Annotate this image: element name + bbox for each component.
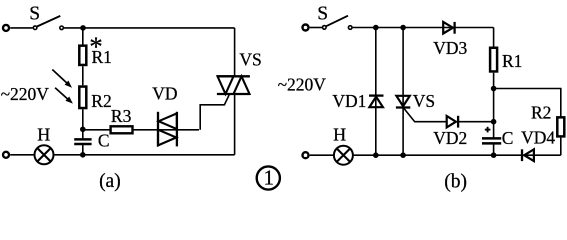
svg-text:R3: R3 bbox=[111, 106, 132, 126]
wire bbox=[560, 138, 562, 156]
terminal top-left (b) bbox=[303, 25, 309, 31]
capacitor C (b) polarized bbox=[482, 122, 501, 156]
wire bbox=[82, 28, 84, 46]
svg-text:S: S bbox=[29, 4, 40, 25]
wire bbox=[133, 129, 200, 131]
terminal top-left (a) bbox=[3, 25, 9, 31]
triac VS left triangle bbox=[218, 76, 234, 94]
wire R2 branch bbox=[494, 89, 561, 118]
wire bbox=[82, 109, 84, 130]
diac VD bottom triangle bbox=[158, 130, 176, 146]
wire bbox=[82, 66, 84, 85]
svg-text:H: H bbox=[37, 124, 50, 144]
svg-text:H: H bbox=[333, 124, 346, 144]
svg-text:R1: R1 bbox=[502, 51, 522, 71]
wire bbox=[493, 73, 495, 122]
node junction bottom VD1 bbox=[373, 152, 379, 158]
diode VD4 bbox=[522, 149, 534, 161]
switch S blade (b) bbox=[326, 16, 348, 27]
triac VS right triangle bbox=[234, 76, 250, 94]
wire VD1 branch bbox=[375, 28, 377, 155]
light arrow 1 bbox=[52, 70, 72, 88]
light arrow 2 bbox=[55, 88, 73, 104]
plus polarity mark bbox=[485, 127, 491, 133]
svg-text:S: S bbox=[317, 4, 328, 25]
svg-text:C: C bbox=[502, 128, 514, 148]
svg-text:(b): (b) bbox=[444, 172, 467, 193]
svg-text:~220V: ~220V bbox=[1, 84, 50, 104]
terminal bottom-left (b) bbox=[303, 152, 309, 158]
switch S pivot contact bbox=[33, 26, 37, 30]
node junction mid (a) bbox=[80, 127, 86, 133]
svg-text:R2: R2 bbox=[531, 102, 551, 122]
diode VD1 bbox=[369, 96, 384, 108]
svg-text:R1: R1 bbox=[92, 47, 112, 67]
lamp H (b) bbox=[334, 146, 353, 165]
wire top rail (b) bbox=[353, 27, 494, 29]
node junction top VD1 bbox=[373, 25, 379, 31]
resistor R3 bbox=[111, 126, 133, 133]
svg-text:VD3: VD3 bbox=[433, 38, 467, 58]
wire gate path bbox=[200, 94, 229, 130]
node junction bottom (a) bbox=[80, 152, 86, 158]
thyristor VS (b) bbox=[396, 96, 410, 108]
node junction R2 branch bbox=[491, 86, 497, 92]
svg-text:VS: VS bbox=[413, 91, 435, 111]
resistor R2 (photoresistor) bbox=[79, 87, 86, 109]
svg-text:VS: VS bbox=[239, 50, 261, 70]
switch S right contact bbox=[60, 26, 64, 30]
svg-text:VD2: VD2 bbox=[433, 128, 467, 148]
node junction top VS bbox=[400, 25, 406, 31]
wire right branch down bbox=[493, 28, 495, 48]
wire VS branch bbox=[402, 28, 404, 155]
wire triac bottom lead bbox=[234, 94, 236, 155]
wire gate of VS (b) bbox=[404, 108, 447, 122]
node junction top (a) bbox=[80, 25, 86, 31]
lamp H (a) bbox=[35, 145, 54, 164]
resistor R1 (b) bbox=[490, 48, 497, 72]
wire top rail (a) bbox=[64, 27, 235, 29]
resistor R1 bbox=[79, 46, 86, 65]
triac VS bottom bar bbox=[217, 93, 250, 95]
wire bottom rail (b) bbox=[310, 154, 494, 156]
switch S pivot contact (b) bbox=[323, 26, 327, 30]
wire triac top lead bbox=[234, 28, 236, 76]
svg-text:VD4: VD4 bbox=[521, 128, 555, 148]
wire bbox=[10, 27, 32, 29]
wire bottom-right segment bbox=[494, 154, 561, 156]
diac VD left bar bbox=[157, 112, 159, 147]
switch S right contact (b) bbox=[348, 26, 352, 30]
svg-text:C: C bbox=[98, 130, 110, 150]
svg-text:~220V: ~220V bbox=[278, 74, 327, 94]
resistor R2 (b) bbox=[557, 117, 564, 136]
wire bbox=[458, 121, 494, 123]
diac VD right bar bbox=[176, 112, 178, 147]
diac VD top triangle bbox=[159, 113, 177, 129]
node junction bottom VS bbox=[400, 152, 406, 158]
svg-text:R2: R2 bbox=[91, 91, 111, 111]
terminal bottom-left (a) bbox=[3, 152, 9, 158]
svg-text:VD1: VD1 bbox=[332, 91, 366, 111]
switch S blade bbox=[37, 16, 60, 27]
diode VD2 bbox=[447, 116, 458, 128]
wire bbox=[83, 129, 111, 131]
figure number circled 1 bbox=[257, 166, 280, 190]
node junction C top bbox=[491, 119, 497, 125]
svg-text:(a): (a) bbox=[99, 171, 121, 192]
wire bbox=[310, 27, 322, 29]
capacitor C (a) bbox=[74, 130, 91, 155]
wire bottom rail (a) bbox=[10, 154, 234, 156]
svg-text:VD: VD bbox=[152, 84, 177, 104]
svg-text:1: 1 bbox=[264, 166, 275, 190]
triac VS top bar bbox=[217, 75, 250, 77]
diode VD3 bbox=[443, 22, 454, 34]
node junction C bottom bbox=[491, 152, 497, 158]
